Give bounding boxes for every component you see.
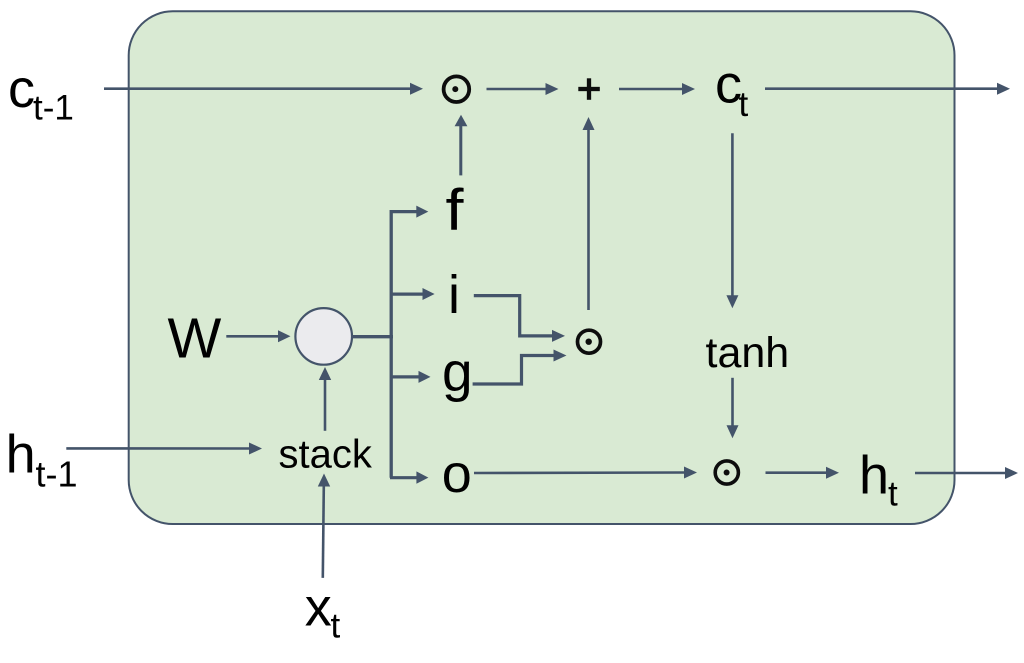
wire h_t to cell output (right) xyxy=(915,467,1018,479)
svg-text:t: t xyxy=(331,607,341,646)
plus gate (cell state addition) xyxy=(578,78,600,100)
svg-text:h: h xyxy=(6,425,36,485)
wire g to merge multiply gate xyxy=(473,350,567,385)
wire multiply gate to plus gate xyxy=(487,83,559,95)
branch vertical wire xyxy=(390,210,393,478)
svg-text:stack: stack xyxy=(279,432,373,476)
multiply gate top (element-wise product) xyxy=(444,76,470,102)
wire output multiply to h_t xyxy=(766,467,840,479)
wire branch to f xyxy=(390,206,428,218)
LSTM cell body xyxy=(129,11,955,524)
svg-text:g: g xyxy=(442,341,473,403)
svg-text:t: t xyxy=(739,85,749,124)
wire i to merge multiply gate xyxy=(474,296,565,342)
wire c_t to cell output (right) xyxy=(765,83,1010,95)
wire branch to i xyxy=(390,288,435,300)
wire merge multiply to plus gate (up) xyxy=(583,117,595,310)
svg-text:t-1: t-1 xyxy=(33,89,74,128)
svg-text:i: i xyxy=(448,265,460,325)
svg-text:t-1: t-1 xyxy=(36,454,78,495)
svg-text:f: f xyxy=(446,178,465,243)
svg-text:o: o xyxy=(442,444,472,504)
node x_t label xyxy=(305,577,341,645)
svg-text:c: c xyxy=(8,59,35,119)
wire c_t-1 to multiply gate xyxy=(104,83,423,95)
wire f to multiply gate (up) xyxy=(455,115,468,176)
stack circle node xyxy=(295,308,352,365)
wire stack to circle (up) xyxy=(319,367,331,431)
svg-text:W: W xyxy=(168,307,222,371)
svg-text:tanh: tanh xyxy=(706,329,790,377)
wire branch to g xyxy=(390,371,431,383)
merge multiply gate (i*g) xyxy=(578,330,601,353)
wire o to output multiply gate xyxy=(474,467,697,479)
svg-text:t: t xyxy=(888,475,898,514)
wire plus gate to c_t xyxy=(619,83,695,95)
node h_t-1 label xyxy=(6,425,78,495)
wire x_t to stack (up) xyxy=(318,474,330,578)
output multiply gate xyxy=(715,461,738,484)
svg-text:x: x xyxy=(305,577,332,637)
wire c_t down to tanh xyxy=(726,133,738,308)
svg-text:h: h xyxy=(859,445,889,505)
wire branch to o xyxy=(390,471,428,483)
node c_t-1 label xyxy=(8,59,74,128)
wire h_t-1 to stack xyxy=(66,443,262,455)
node c_t label xyxy=(715,55,749,125)
wire W to stack circle xyxy=(226,330,290,342)
node h_t label xyxy=(859,445,898,513)
wire tanh to output multiply gate xyxy=(727,378,739,438)
wire circle to branch line xyxy=(353,335,394,338)
